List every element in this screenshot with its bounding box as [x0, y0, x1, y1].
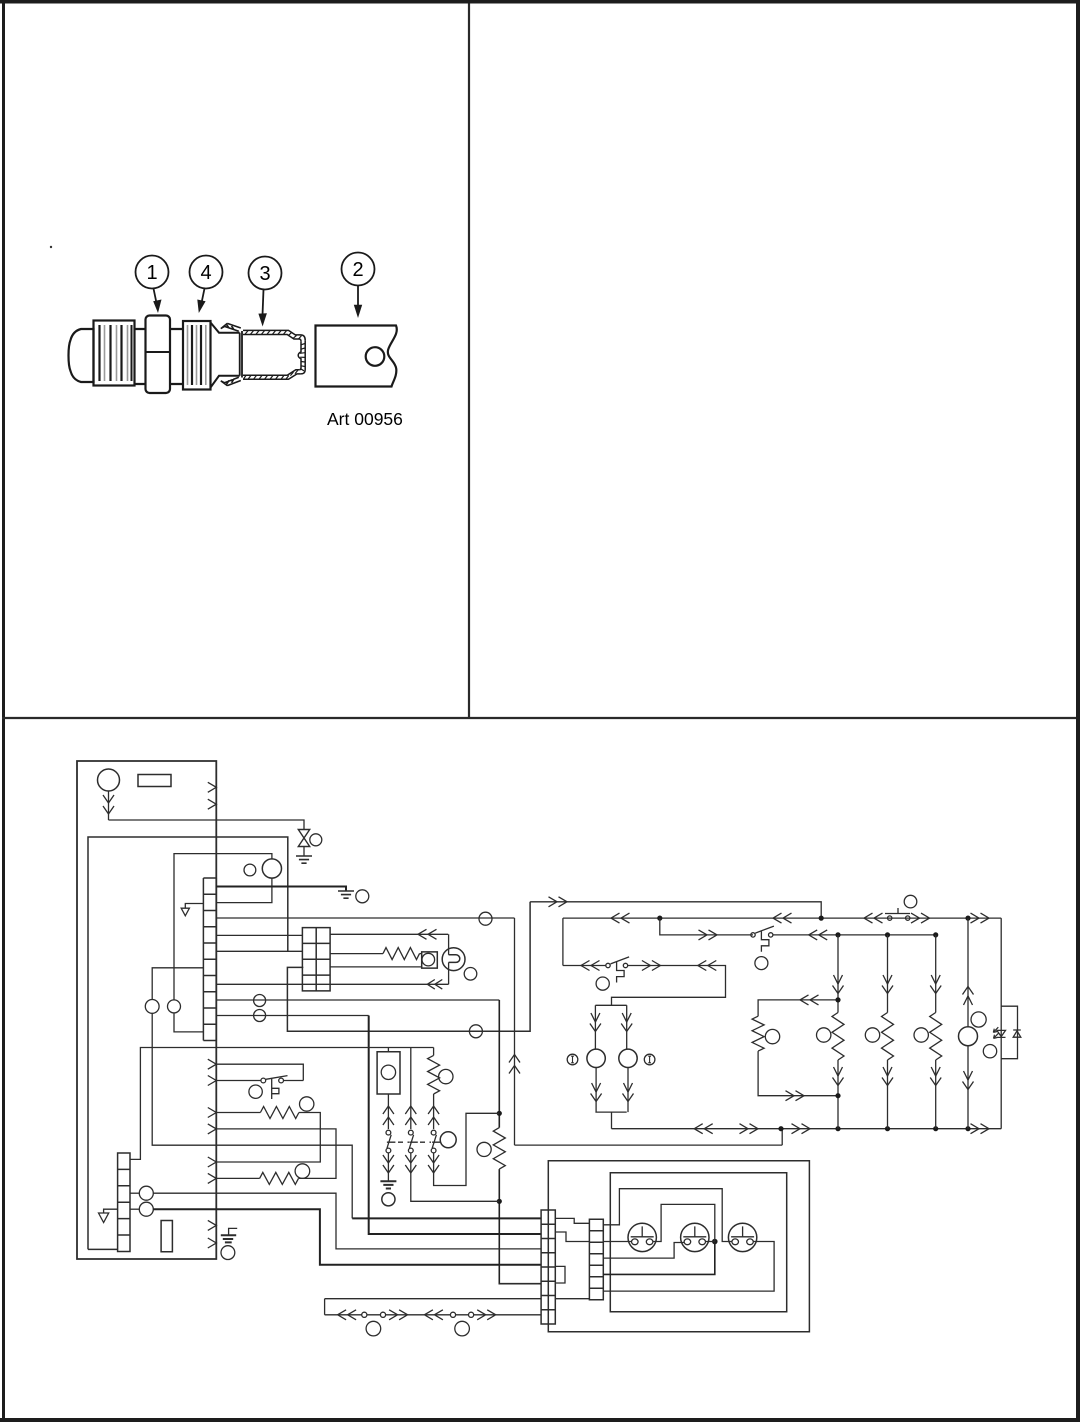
- component circle big: [262, 859, 281, 878]
- fitting nose: [69, 329, 94, 382]
- bottom row contact a2: [380, 1312, 385, 1317]
- switch SW1 heater: [617, 962, 625, 983]
- wire thermostat to edge: [216, 1080, 261, 1082]
- wire x499 vertical lower: [499, 1169, 541, 1284]
- arrowheads on generator wire: [103, 795, 114, 814]
- label circle branch4: [971, 1012, 986, 1027]
- ground pole1: [380, 1181, 396, 1188]
- hex nut (item 1): [146, 316, 171, 394]
- sensor circle R: [168, 1000, 181, 1013]
- wire pole3 bottom wrap: [434, 1113, 500, 1185]
- wire bus2: [563, 917, 1001, 919]
- arrows lamp top: [800, 995, 819, 1005]
- junction dot 838/1096: [835, 1093, 840, 1098]
- generator box outline: [77, 761, 216, 1259]
- wire sensor R top: [174, 1013, 203, 1032]
- resistor pole3: [428, 1055, 440, 1094]
- wire feed top right: [530, 902, 821, 918]
- motor label I right: [644, 1054, 655, 1065]
- LED symbol: [997, 1030, 1006, 1037]
- generator nameplate rect: [138, 775, 171, 787]
- wire lamp branch bottom: [758, 1051, 838, 1096]
- crimp sleeve top band (hatched): [243, 330, 305, 341]
- wire TB2 spare stub: [104, 1209, 118, 1213]
- wire harness loop left/top: [88, 837, 288, 1249]
- thermostat contacts: [279, 1078, 284, 1083]
- outlet inner box: [610, 1173, 786, 1312]
- wire TBA-TBB link1: [555, 1218, 589, 1223]
- svg-text:2: 2: [352, 259, 363, 281]
- junction dot 499/1113: [497, 1111, 502, 1116]
- wire x499 vertical upper: [498, 1000, 500, 1128]
- wire strip to sensor L: [152, 968, 203, 1000]
- wire lamp branch top: [758, 1000, 838, 1016]
- label circle branch 838: [817, 1028, 831, 1042]
- wire TBB w5: [603, 1242, 715, 1275]
- wire harness to lower strip: [88, 1248, 118, 1250]
- wire recep2 hole to dot: [706, 1241, 715, 1243]
- wire pole2 drop: [410, 1048, 412, 1105]
- relay label circle: [440, 1132, 456, 1148]
- label circle branch 935.7: [914, 1028, 928, 1042]
- wire TB2 rowB to circleB: [130, 1208, 139, 1210]
- poles linkage dashed: [398, 1141, 431, 1143]
- wire generator down-arrow: [108, 791, 110, 820]
- terminal strip TB-A: [541, 1210, 555, 1324]
- wire loop2 top: [216, 1129, 336, 1179]
- wire row934 right: [773, 934, 936, 936]
- receptacle 2: [681, 1223, 709, 1251]
- junction dots bus3: [835, 932, 840, 937]
- LED arrows: [993, 1027, 998, 1038]
- label circle pole3 resistor: [439, 1069, 453, 1083]
- wire block row3: [330, 966, 422, 968]
- wire pole2 bottom: [411, 1174, 500, 1201]
- resistor loop2: [260, 1172, 299, 1184]
- svg-text:3: 3: [259, 263, 270, 285]
- wire block row4: [216, 983, 448, 985]
- arrows bus2 b: [611, 913, 630, 923]
- arrows branch down 838: [833, 975, 844, 994]
- wire coil feed long: [130, 1048, 434, 1160]
- resistor R right-mid: [493, 1128, 505, 1170]
- wire bus2 left drop: [562, 918, 564, 965]
- arrows SW1 right b: [698, 961, 717, 971]
- callout 4: [190, 256, 223, 289]
- wire strip to x368: [216, 1015, 368, 1017]
- resistor branch 935.7: [930, 1013, 942, 1061]
- bottom row arrows b: [389, 1310, 408, 1320]
- ground label circle: [356, 890, 369, 903]
- bottom row arrows c: [424, 1310, 443, 1320]
- thermostat heater mark: [272, 1079, 279, 1099]
- bracket plate (item 2): [316, 326, 397, 387]
- wire loop2 to edge: [216, 1177, 259, 1179]
- arrows motor left down: [590, 1013, 601, 1032]
- bottom row arrows d: [477, 1310, 496, 1320]
- wire to gas valve: [109, 820, 305, 830]
- wire bundle 1283: [499, 1283, 541, 1285]
- label circle on wire 918: [479, 912, 492, 925]
- arrows SW1 right a: [642, 961, 661, 971]
- junction dot 499/1201: [497, 1199, 502, 1204]
- wire x368 down to bundle: [369, 1016, 541, 1235]
- label circle lamp branch: [765, 1029, 779, 1043]
- terminal strip TB-B: [589, 1219, 603, 1300]
- chassis ground label circle: [221, 1246, 235, 1260]
- ground below valve: [296, 856, 312, 863]
- arrows row1: [418, 929, 437, 939]
- svg-text:1: 1: [146, 262, 157, 284]
- wire branch v 935.7: [935, 935, 937, 1013]
- outlet outer box: [548, 1161, 809, 1332]
- chassis ground bars: [221, 1235, 236, 1242]
- igniter box: [422, 952, 438, 968]
- thermostat label circle: [249, 1085, 262, 1098]
- wire block row3 feed to right circuit: [287, 902, 530, 1032]
- callout 4 arrow: [202, 289, 205, 304]
- poles lower leads: [388, 1153, 433, 1174]
- bottom row label circle b: [455, 1321, 470, 1336]
- wire sensor L down: [152, 1013, 352, 1218]
- gas valve label circle: [310, 834, 322, 846]
- callout 3: [249, 257, 282, 290]
- arrows bus2 a: [773, 913, 792, 923]
- pushbutton label circle: [904, 895, 917, 908]
- wire strip to x499: [216, 999, 499, 1001]
- junction dot 781: [778, 1126, 783, 1131]
- wire valve to ground: [303, 847, 305, 857]
- arrows motor right down: [621, 1013, 632, 1032]
- arrows pushbutton left: [864, 913, 883, 923]
- arrows motor right down2: [623, 1083, 634, 1102]
- arrows branch down 935.7: [930, 975, 941, 994]
- arrows bottom bus b: [740, 1124, 759, 1134]
- switch SW1 blade: [611, 957, 630, 964]
- open arrow spare top: [181, 908, 189, 916]
- resistor igniter: [383, 948, 420, 960]
- connector pin top edge 2: [208, 799, 217, 809]
- fitting neck A: [135, 329, 146, 384]
- relay coil circle: [381, 1065, 395, 1079]
- receptacle 3: [728, 1223, 756, 1251]
- switch SW1 contacts: [606, 963, 610, 967]
- label circle on wire 1015: [254, 1010, 266, 1022]
- switch SW2 blade: [755, 926, 774, 933]
- wire circleB to bundle: [153, 1209, 541, 1265]
- junction dot 821: [819, 916, 824, 921]
- wire strip to block row2: [216, 950, 302, 952]
- label circle branch 887.5: [865, 1028, 879, 1042]
- ground symbol on lead: [338, 891, 354, 898]
- wire TBA-TBB link2: [555, 1232, 589, 1242]
- arrows feed right: [549, 897, 568, 907]
- wire component to strip: [216, 878, 272, 903]
- wire branch4 lower: [967, 1046, 969, 1129]
- callout 1: [136, 256, 169, 289]
- motor circle right: [619, 1049, 637, 1067]
- motor M2 circle: [959, 1027, 978, 1046]
- bottom row contact b2: [469, 1312, 474, 1317]
- wire TBB w6: [603, 1242, 774, 1292]
- wire branch lower 838: [837, 1060, 839, 1129]
- wire TBB w4: [603, 1243, 684, 1259]
- arrows SW1 left: [581, 961, 600, 971]
- arrows bottom bus c: [792, 1124, 811, 1134]
- callout 2 arrow: [357, 286, 359, 307]
- switch SW1 row wire left: [563, 965, 606, 967]
- igniter label circle: [464, 968, 477, 981]
- motor label I left: [567, 1054, 578, 1065]
- generator symbol circle: [98, 769, 120, 791]
- wire strip ground lead: [216, 887, 346, 892]
- arrows branch down2 935.7: [930, 1067, 941, 1086]
- svg-text:4: 4: [200, 262, 211, 284]
- wire block row1: [330, 933, 448, 935]
- crimp sleeve right wall (hatched): [298, 340, 305, 374]
- callout 3 arrow: [263, 290, 264, 316]
- relay coil box: [377, 1052, 400, 1094]
- callout 1 arrow: [154, 289, 157, 304]
- wire right bus: [1000, 918, 1002, 1129]
- pushbutton contacts: [888, 916, 892, 920]
- terminal strip TB1: [203, 878, 216, 1041]
- fitting ribbed section A: [94, 321, 135, 386]
- junction dot 968 top: [965, 916, 970, 921]
- arrows branch down 887.5: [882, 975, 893, 994]
- fitting ribbed section B (item 4): [183, 321, 211, 390]
- connector pin top edge 1: [208, 782, 217, 792]
- wire bundle 1298: [325, 1298, 541, 1300]
- wire strip spare stub: [185, 904, 203, 909]
- arrows bus2 end: [971, 913, 990, 923]
- LED label circle: [983, 1045, 996, 1058]
- wire motor tee top: [595, 1005, 626, 1049]
- motor circle left: [587, 1049, 605, 1067]
- crimp sleeve top wing: [221, 323, 241, 331]
- bottom row contact a1: [362, 1312, 367, 1317]
- resistor branch 887.5: [882, 1013, 894, 1061]
- switch SW2 label circle: [755, 957, 768, 970]
- wire branch lower 887.5: [887, 1060, 889, 1129]
- arrows bottom bus d: [971, 1124, 990, 1134]
- resistor lamp branch: [752, 1016, 764, 1051]
- wire TBB w3: [603, 1241, 631, 1243]
- wire thermostat bottom right: [284, 1080, 304, 1082]
- wire igniter vertical: [448, 934, 450, 984]
- wire branch lower 935.7: [935, 1060, 937, 1129]
- arrows motor left down2: [591, 1083, 602, 1102]
- bottom row label circle a: [366, 1321, 381, 1336]
- TB2 label circle A: [139, 1186, 153, 1200]
- junction dot 659: [657, 916, 662, 921]
- receptacle 1: [628, 1223, 656, 1251]
- wire TBB w2: [653, 1204, 715, 1241]
- arrows branch down2 887.5: [882, 1067, 893, 1086]
- wire 659 drop: [660, 918, 753, 935]
- terminal strip TB2: [118, 1153, 130, 1252]
- arrows bottom bus a: [694, 1124, 713, 1134]
- switch SW1 label circle: [596, 977, 609, 990]
- arrows branch4 up: [963, 987, 974, 1006]
- wire circleA to bundle: [153, 1193, 541, 1249]
- wire branch4 upper: [967, 918, 969, 1027]
- flame sensor tongue: [449, 955, 460, 963]
- wire TBB w1: [603, 1189, 732, 1242]
- arrows pushbutton right: [911, 913, 930, 923]
- igniter box circle: [422, 953, 435, 966]
- wire block row2 to resistor: [330, 953, 383, 955]
- bottom row arrows a: [338, 1310, 357, 1320]
- label circle loop2: [295, 1164, 310, 1179]
- fitting neck B: [170, 329, 183, 384]
- wire bottom switch row: [325, 1314, 541, 1316]
- TB2 label circle B: [139, 1202, 153, 1216]
- gas valve symbol: [298, 830, 309, 847]
- poles up arrows: [383, 1106, 439, 1125]
- wire x514 down: [515, 918, 783, 1145]
- open arrow spare: [99, 1213, 109, 1223]
- wire TBA-TBB link3: [555, 1298, 589, 1300]
- bottom row contact b1: [450, 1312, 455, 1317]
- TBA stub box: [555, 1266, 565, 1283]
- wire strip to block row1: [216, 934, 302, 936]
- poles contacts: [386, 1130, 391, 1135]
- component circle small: [244, 864, 256, 876]
- junction dots bottom: [835, 1126, 840, 1131]
- flame sensor circle: [442, 948, 465, 971]
- fitting taper collar: [211, 323, 240, 388]
- diode symbol right: [1013, 1030, 1021, 1037]
- arrows row934: [699, 930, 718, 940]
- arrows row4: [427, 980, 442, 990]
- crimp sleeve (item 3) left edge: [240, 331, 242, 378]
- poles blades: [387, 1135, 436, 1148]
- wire sensor R up: [174, 854, 272, 1000]
- pole1 ground label circle: [382, 1193, 395, 1206]
- poles down arrows: [383, 1155, 439, 1173]
- up arrows on x514: [509, 1055, 520, 1074]
- label circle on harness wire 1031: [469, 1025, 482, 1038]
- wire branch v 887.5: [887, 935, 889, 1013]
- bottom row left cap: [324, 1299, 326, 1315]
- junction dot 838/1000: [835, 997, 840, 1002]
- label circle loop1: [300, 1097, 314, 1111]
- diode box: [1001, 1006, 1017, 1058]
- wire loop1 top: [216, 1112, 260, 1114]
- svg-text:Art 00956: Art 00956: [327, 409, 403, 429]
- callout 2: [342, 253, 375, 286]
- resistor loop1: [260, 1107, 299, 1119]
- wire motor bottoms: [595, 1068, 628, 1129]
- wire thermostat top: [216, 1064, 303, 1080]
- wire loop1 return: [216, 1113, 320, 1163]
- plate hole: [366, 347, 385, 366]
- sensor circle L: [145, 1000, 159, 1014]
- junction dot receptacle: [712, 1239, 718, 1245]
- label circle on wire 1000: [254, 995, 266, 1007]
- wire pole1 to ground: [387, 1174, 389, 1181]
- arrows branch4 down: [963, 1071, 974, 1090]
- chassis ground flag: [229, 1228, 238, 1235]
- arrows row934 right: [809, 930, 828, 940]
- switch SW2 contacts: [751, 933, 755, 937]
- crimp sleeve bottom band (hatched): [243, 370, 301, 380]
- poles upper leads: [388, 1104, 433, 1129]
- arrows branch down2 838: [833, 1067, 844, 1086]
- wire pole3 to arrows: [433, 1094, 435, 1104]
- connector block J1: [302, 928, 330, 991]
- label circle resistor: [477, 1142, 491, 1156]
- pushbutton bar: [885, 908, 910, 914]
- arrows lamp bottom: [786, 1091, 805, 1101]
- crimp sleeve bottom wing: [221, 377, 241, 385]
- wire pole3 drop: [433, 1048, 435, 1056]
- edge connector pins: [208, 1059, 217, 1248]
- wire bundle 1218 heavy: [352, 1217, 541, 1219]
- fuse rect: [161, 1221, 172, 1252]
- poles linkage ticks: [387, 1141, 441, 1143]
- thermostat blade: [266, 1076, 288, 1080]
- wire pole1 coil to arrows: [387, 1094, 389, 1104]
- wire branch v 838: [837, 935, 839, 1013]
- resistor branch 838: [832, 1013, 844, 1061]
- wire long to right x514: [216, 917, 514, 919]
- wire SW1 right: [612, 966, 726, 1006]
- wire resistor to box: [420, 953, 422, 955]
- switch SW2 heater: [761, 931, 769, 952]
- wire bottom bus: [612, 1128, 1002, 1130]
- wire coil drop: [387, 1048, 389, 1052]
- wire TB2 rowA to circleA: [130, 1192, 139, 1194]
